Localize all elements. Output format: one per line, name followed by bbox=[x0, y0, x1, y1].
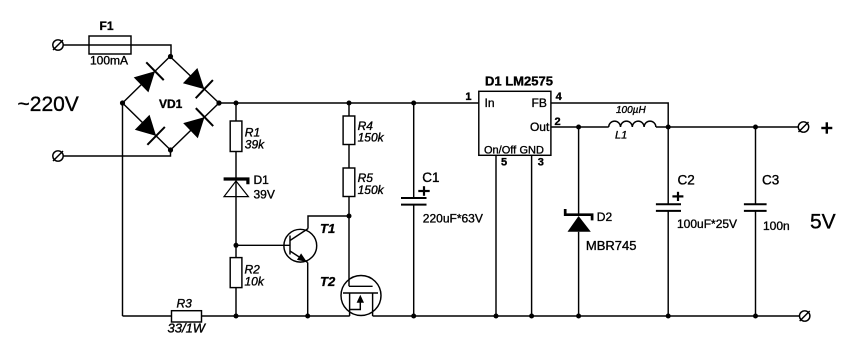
node bottom rail at R2 bbox=[234, 314, 239, 319]
wire R4-R5 chain vertical bbox=[348, 103, 350, 286]
wire left DC drop bbox=[122, 103, 124, 316]
wire from bottom terminal to bridge bottom bbox=[63, 150, 170, 156]
node bottom rail at C1 bbox=[411, 314, 416, 319]
svg-text:1: 1 bbox=[465, 91, 471, 103]
node base junction bbox=[234, 243, 239, 248]
bridge rectifier VD1 bbox=[123, 57, 220, 151]
svg-text:D2: D2 bbox=[597, 210, 613, 224]
svg-text:GND: GND bbox=[520, 145, 545, 157]
svg-text:100uF*25V: 100uF*25V bbox=[677, 217, 737, 231]
wire FB feedback bbox=[551, 103, 668, 127]
IC D1 LM2575 bbox=[479, 91, 551, 155]
node at L1 right / FB bbox=[666, 125, 671, 130]
label + output bbox=[821, 122, 832, 133]
bridge diode bottom-right bbox=[182, 108, 213, 140]
svg-text:39k: 39k bbox=[245, 138, 265, 152]
wire bottom rail left bbox=[123, 315, 172, 317]
bridge diode left-bottom bbox=[133, 113, 164, 145]
schottky diode D2 bbox=[565, 127, 592, 316]
label + (C2) bbox=[672, 192, 683, 201]
node bridge top bbox=[168, 54, 173, 59]
wire bottom rail right bbox=[373, 315, 800, 317]
svg-text:150k: 150k bbox=[358, 183, 385, 197]
svg-text:F1: F1 bbox=[100, 19, 114, 33]
svg-text:C3: C3 bbox=[762, 173, 779, 188]
transistor T1 bbox=[284, 229, 317, 263]
svg-text:10k: 10k bbox=[245, 275, 265, 289]
svg-text:T2: T2 bbox=[320, 274, 336, 289]
capacitor C3 bbox=[744, 127, 767, 316]
svg-text:100n: 100n bbox=[763, 219, 790, 233]
svg-text:On/Off: On/Off bbox=[484, 145, 517, 157]
capacitor C1 bbox=[401, 103, 427, 316]
node pin5 on rail bbox=[494, 314, 499, 319]
svg-text:~220V: ~220V bbox=[18, 93, 79, 116]
svg-text:L1: L1 bbox=[615, 130, 627, 142]
bridge diode left-top bbox=[132, 62, 163, 94]
svg-text:T1: T1 bbox=[320, 221, 335, 236]
node top rail at C1 bbox=[411, 101, 416, 106]
svg-text:FB: FB bbox=[532, 96, 547, 110]
svg-text:VD1: VD1 bbox=[159, 97, 183, 111]
node emitter on rail bbox=[305, 314, 310, 319]
label + (C1) bbox=[418, 186, 429, 196]
resistor R2 bbox=[230, 258, 242, 288]
svg-text:220uF*63V: 220uF*63V bbox=[423, 211, 483, 225]
node top rail at R4 bbox=[347, 101, 352, 106]
capacitor C2 bbox=[656, 127, 681, 316]
node bridge right bbox=[216, 100, 221, 105]
node collector junction bbox=[347, 214, 352, 219]
fuse F1 bbox=[89, 36, 131, 54]
output terminal minus bbox=[800, 311, 810, 321]
svg-text:2: 2 bbox=[555, 116, 561, 128]
svg-text:5: 5 bbox=[501, 157, 507, 169]
svg-text:100mA: 100mA bbox=[90, 54, 128, 68]
svg-text:4: 4 bbox=[556, 91, 563, 103]
transistor T2 MOSFET bbox=[341, 276, 381, 317]
svg-text:R3: R3 bbox=[177, 297, 193, 311]
node Out at D2 bbox=[576, 125, 581, 130]
output terminal plus bbox=[798, 122, 808, 132]
inductor L1 bbox=[609, 121, 656, 127]
svg-text:C2: C2 bbox=[678, 173, 695, 188]
wire pin 5 to ground rail bbox=[495, 155, 497, 316]
svg-text:33/1W: 33/1W bbox=[168, 321, 207, 336]
svg-text:Out: Out bbox=[530, 120, 550, 134]
wire T1 base bbox=[236, 244, 290, 246]
resistor R1 bbox=[230, 121, 242, 152]
node pin3 on rail bbox=[529, 314, 534, 319]
node top rail at R1 bbox=[234, 101, 239, 106]
wire from top terminal through fuse to bridge top bbox=[63, 45, 171, 57]
svg-text:39V: 39V bbox=[254, 188, 275, 202]
node bridge bottom bbox=[168, 147, 173, 152]
wire bottom rail mid bbox=[202, 315, 350, 317]
input terminal bottom bbox=[53, 151, 63, 161]
svg-text:150k: 150k bbox=[358, 131, 385, 145]
node at C3 top bbox=[753, 125, 758, 130]
wire pin 3 to ground rail bbox=[531, 155, 533, 316]
node D2 on rail bbox=[576, 314, 581, 319]
node bridge left bbox=[120, 100, 125, 105]
wire top rail bbox=[219, 102, 479, 104]
svg-text:D1: D1 bbox=[254, 173, 270, 187]
svg-text:D1 LM2575: D1 LM2575 bbox=[485, 74, 553, 89]
zener diode D1 bbox=[224, 179, 249, 197]
svg-text:100µH: 100µH bbox=[616, 105, 646, 116]
node C2 on rail bbox=[666, 314, 671, 319]
wire Out bbox=[551, 126, 609, 128]
resistor R3 bbox=[172, 311, 202, 322]
resistor R4 bbox=[343, 116, 355, 145]
wire R1-D1-R2 chain vertical bbox=[235, 103, 237, 316]
svg-text:MBR745: MBR745 bbox=[586, 238, 637, 253]
wire output top rail bbox=[656, 126, 798, 128]
input terminal top bbox=[53, 40, 63, 50]
resistor R5 bbox=[343, 168, 355, 197]
svg-text:C1: C1 bbox=[422, 170, 439, 185]
svg-text:In: In bbox=[485, 96, 495, 110]
wire T1 collector to node bbox=[308, 216, 349, 229]
node C3 on rail bbox=[753, 314, 758, 319]
svg-text:3: 3 bbox=[538, 157, 544, 169]
svg-text:5V: 5V bbox=[810, 211, 836, 234]
wire T1 emitter drop bbox=[307, 263, 309, 317]
bridge diode top-right bbox=[182, 67, 213, 99]
